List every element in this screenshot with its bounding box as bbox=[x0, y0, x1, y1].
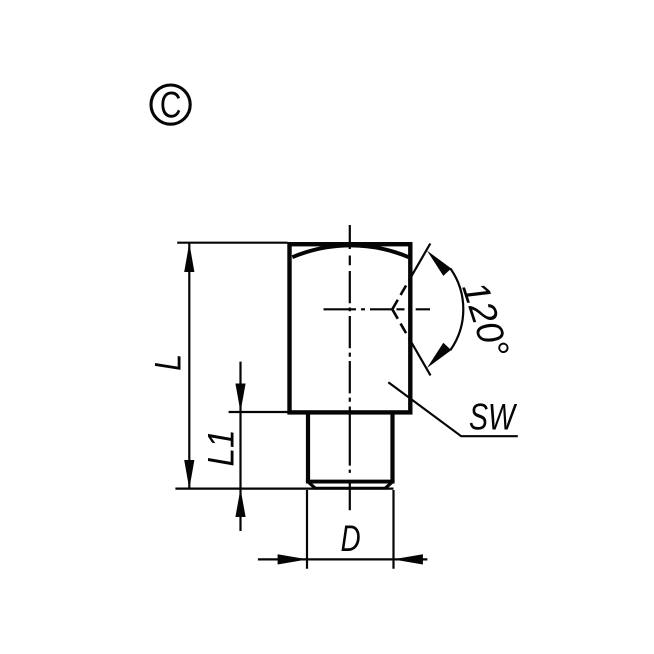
arrow D left (outside, pointing right) bbox=[278, 554, 308, 564]
arrow L bottom bbox=[184, 460, 194, 489]
vertical centerline bbox=[349, 225, 351, 510]
angle leg extension upper bbox=[412, 244, 431, 277]
horizontal centerline bbox=[324, 308, 431, 310]
stud bottom line bbox=[314, 487, 387, 490]
svg-text:L: L bbox=[148, 354, 189, 371]
body outline (hex side view) bbox=[290, 244, 411, 412]
dimension line L1 bbox=[239, 362, 241, 531]
top extension line bbox=[177, 242, 287, 244]
hidden cone upper edge (dashed) bbox=[392, 276, 411, 309]
SW leader line bbox=[388, 382, 518, 436]
chamfer left diagonal bbox=[307, 481, 315, 488]
svg-text:L1: L1 bbox=[200, 430, 241, 467]
svg-text:SW: SW bbox=[469, 396, 517, 437]
angle arrow upper bbox=[427, 251, 451, 276]
hidden cone lower edge (dashed) bbox=[392, 309, 411, 342]
arrow D right (outside, pointing left) bbox=[393, 554, 423, 564]
bottom extension line bbox=[175, 488, 393, 490]
index circle C bbox=[151, 85, 190, 124]
dimension line L bbox=[188, 244, 190, 489]
arrow L1 top (outside, pointing down) bbox=[235, 384, 245, 413]
threaded stud left edge bbox=[306, 413, 310, 481]
thread chamfer line bbox=[306, 480, 395, 484]
D extension line left bbox=[306, 490, 308, 569]
dimension line D bbox=[258, 558, 428, 560]
D extension line right bbox=[392, 490, 394, 569]
arrow L top bbox=[184, 243, 194, 272]
angle arrow lower bbox=[427, 343, 451, 368]
arrow L1 bottom (outside, pointing up) bbox=[235, 489, 245, 517]
threaded stud right edge bbox=[390, 413, 394, 481]
svg-text:C: C bbox=[160, 85, 182, 126]
angle leg extension lower bbox=[412, 343, 431, 376]
angle dimension arc 120deg bbox=[451, 269, 464, 350]
svg-text:D: D bbox=[341, 518, 361, 559]
chamfer right diagonal bbox=[385, 481, 393, 488]
ball seat crown arc bbox=[292, 245, 408, 257]
shoulder extension line bbox=[229, 411, 288, 413]
